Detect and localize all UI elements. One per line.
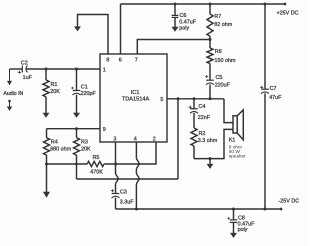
wire pin 7 to R7/R6 junction (137, 40, 210, 55)
svg-text:20K: 20K (81, 146, 91, 152)
ground R4 (46, 164, 48, 192)
node terminal -25V (280, 208, 283, 211)
label C3 value (120, 189, 134, 205)
svg-text:4: 4 (134, 137, 137, 143)
wire pin 8 to ground (78, 15, 109, 55)
resistor R1 (43, 69, 49, 113)
capacitor C1 (71, 69, 80, 113)
label C1 value (81, 85, 97, 98)
speaker K1 (233, 110, 243, 140)
svg-text:speaker: speaker (229, 154, 246, 160)
resistor R6 (207, 40, 213, 80)
pin 7 label (135, 58, 138, 64)
svg-text:TDA1514A: TDA1514A (122, 96, 150, 102)
resistor R2 (191, 128, 197, 159)
node junction speaker ground (209, 157, 212, 160)
wire feedback riser to pin 5 (177, 99, 179, 179)
wire -25V bottom rail (116, 208, 282, 210)
capacitor C2 (18, 66, 28, 74)
svg-text:C1: C1 (81, 85, 88, 91)
svg-text:-25V DC: -25V DC (279, 198, 300, 204)
svg-text:+25V DC: +25V DC (277, 11, 299, 17)
svg-text:150 ohm: 150 ohm (215, 58, 236, 64)
svg-text:C6: C6 (180, 13, 187, 19)
pin 5 label (160, 97, 163, 103)
label -25V DC (279, 198, 300, 204)
wire speaker bottom terminal (194, 129, 233, 158)
svg-text:1: 1 (103, 68, 106, 74)
wire pin 6 riser (120, 4, 122, 54)
svg-text:47uF: 47uF (269, 95, 282, 101)
node junction C6 on +25V rail (174, 3, 177, 6)
svg-text:K1: K1 (229, 137, 235, 143)
pin 2 label (153, 137, 156, 143)
pin 6 label (119, 58, 122, 64)
svg-text:470K: 470K (90, 170, 103, 176)
node junction C1 top (75, 68, 78, 71)
wire node A horizontal R4 to R5 (47, 163, 88, 165)
node junction C8 on rail (232, 208, 235, 211)
node junction pin 4 on negative rail (135, 208, 138, 211)
svg-text:9: 9 (103, 127, 106, 133)
ground speaker/R2 (209, 159, 211, 165)
node junction R4 bottom (45, 163, 48, 166)
svg-text:R6: R6 (215, 49, 222, 55)
label R1 value (50, 82, 60, 95)
svg-text:1uF: 1uF (23, 75, 33, 81)
label C4 value (198, 104, 211, 121)
svg-text:7: 7 (135, 58, 138, 64)
node junction right rail bottom (264, 208, 267, 211)
svg-text:5: 5 (160, 97, 163, 103)
wire +25V top rail (121, 3, 286, 5)
pin 8 label (106, 58, 109, 64)
svg-text:poly: poly (238, 227, 248, 233)
wire feedback horizontal (77, 178, 179, 180)
label R6 value (215, 49, 236, 64)
label C2 value (21, 60, 33, 81)
svg-text:3.3 ohm: 3.3 ohm (198, 138, 218, 144)
svg-text:IC1: IC1 (131, 90, 140, 96)
wire feedback from node A down (76, 164, 78, 179)
wire input C2 to pin 1 (26, 68, 100, 70)
capacitor C6 (172, 4, 179, 27)
svg-text:C5: C5 (216, 75, 223, 81)
label C8 value (238, 215, 255, 233)
label R2 value (198, 131, 218, 144)
ground C8 (230, 233, 237, 238)
svg-text:C4: C4 (199, 104, 206, 110)
svg-text:220pF: 220pF (81, 91, 97, 97)
svg-text:R3: R3 (81, 140, 88, 146)
svg-text:R4: R4 (51, 140, 58, 146)
label IC1 TDA1514A (122, 90, 150, 102)
svg-text:8: 8 (106, 58, 109, 64)
label C6 value (179, 13, 196, 31)
node junction R3 top on pin9 wire (75, 127, 78, 130)
ground R1 (43, 113, 50, 118)
resistor R5 (87, 161, 104, 166)
wire speaker top terminal (224, 99, 233, 123)
node junction R1 top (45, 68, 48, 71)
op-amp U1 IC1 TDA1514A box (100, 54, 167, 142)
capacitor C7 (260, 86, 269, 94)
pin 1 label (103, 68, 106, 74)
svg-text:R7: R7 (214, 14, 221, 20)
label C5 value (215, 75, 231, 88)
ground C6 (172, 27, 179, 32)
svg-text:C2: C2 (21, 60, 28, 66)
wire pin 3 to C3 with hop (116, 142, 119, 193)
node junction R7 on +25V rail (209, 3, 212, 6)
capacitor C3 (111, 189, 120, 209)
svg-text:C7: C7 (270, 86, 277, 92)
wire input left of C2 (10, 68, 23, 70)
svg-text:R1: R1 (51, 82, 58, 88)
ground C1 (73, 113, 80, 118)
capacitor C5 (205, 75, 214, 99)
node audio input terminal (9, 69, 11, 81)
svg-text:6: 6 (119, 58, 122, 64)
wire right rail upper (264, 4, 266, 89)
node junction pin7/R7/R6 (209, 38, 212, 41)
svg-text:22nF: 22nF (198, 115, 211, 121)
svg-text:poly: poly (179, 26, 189, 32)
svg-text:680 ohm: 680 ohm (50, 146, 71, 152)
svg-text:20K: 20K (50, 89, 60, 95)
svg-text:C3: C3 (120, 189, 127, 195)
pin 4 label (134, 137, 137, 143)
label R5 value (90, 155, 103, 175)
ground pin 8 (74, 26, 81, 31)
svg-text:3.3uF: 3.3uF (120, 199, 134, 205)
wire R5 to pin 2 (104, 142, 156, 164)
capacitor C4 (189, 99, 198, 128)
node junction C5 on pin5 wire (209, 97, 212, 100)
label C7 value (269, 86, 282, 101)
label R3 value (81, 140, 91, 153)
wire right rail lower (264, 93, 266, 209)
label +25V DC (277, 11, 299, 17)
node junction right rail on +25V rail (264, 3, 267, 6)
pin 9 label (103, 127, 106, 133)
wire pin 4 to negative rail with hops (136, 142, 139, 209)
node terminal +25V (284, 3, 287, 6)
ground audio input shield arrow (9, 101, 11, 107)
pin 3 label (113, 137, 116, 143)
wire pin 9 (47, 128, 101, 130)
label K1 value (229, 137, 246, 159)
label R4 value (50, 140, 71, 153)
svg-text:3: 3 (113, 137, 116, 143)
node junction R3/R5/feedback (75, 163, 78, 166)
svg-text:2: 2 (153, 137, 156, 143)
node junction feedback on pin5 wire (177, 97, 180, 100)
label Audio IN (3, 91, 23, 97)
svg-text:Audio IN: Audio IN (3, 91, 23, 97)
capacitor C8 (227, 209, 237, 233)
svg-text:R2: R2 (199, 131, 206, 137)
node junction C4 on pin5 wire (193, 97, 196, 100)
svg-text:220uF: 220uF (215, 82, 231, 88)
wire pin 5 output (167, 98, 224, 100)
node junction pin3 line on R5 wire (114, 163, 117, 166)
label R7 value (214, 14, 232, 28)
resistor R4 (44, 129, 50, 164)
resistor R7 (207, 4, 213, 40)
svg-text:82 ohm: 82 ohm (214, 22, 232, 28)
svg-text:R5: R5 (93, 155, 100, 161)
resistor R3 (74, 129, 80, 164)
